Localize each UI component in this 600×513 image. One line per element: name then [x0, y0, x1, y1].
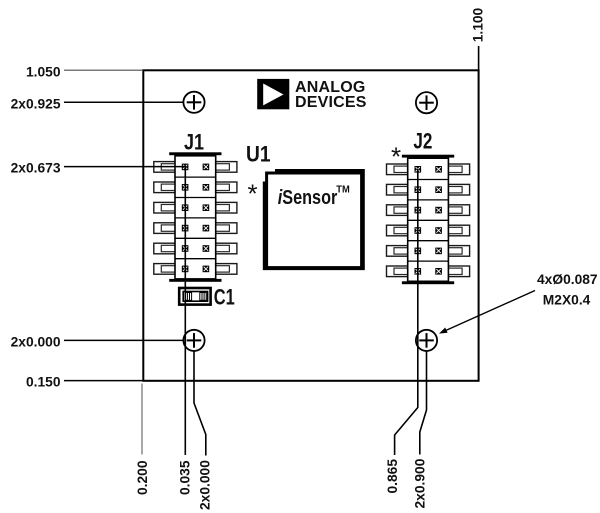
svg-text:2x0.000: 2x0.000	[198, 460, 213, 510]
svg-text:0.200: 0.200	[135, 460, 150, 495]
board outline	[143, 70, 478, 381]
J2 top end bar	[402, 155, 454, 158]
dimension 2x0.925 (leader + label)	[11, 96, 184, 111]
svg-text:C1: C1	[214, 285, 235, 310]
leader line 0.865 (J2 pin column)	[395, 169, 418, 455]
leader line 0.200 (board left edge)	[141, 384, 143, 455]
svg-text:0.035: 0.035	[178, 460, 193, 495]
J1 pin row 5 side tabs	[154, 243, 237, 254]
leader line 2x0.000 (bottom-left hole)	[194, 351, 206, 455]
J1 pin row 3 side tabs	[154, 202, 237, 213]
mounting hole top-left	[183, 92, 204, 113]
J1 top end bar	[169, 152, 221, 155]
J2 pin row 3 side tabs	[387, 205, 470, 216]
J2 pin row 2 side tabs	[387, 184, 470, 195]
svg-text:J1: J1	[184, 129, 204, 154]
svg-text:M2X0.4: M2X0.4	[543, 292, 591, 307]
svg-text:TM: TM	[336, 184, 350, 196]
mounting hole bottom-left	[183, 330, 204, 351]
note 4xO0.087 M2X0.4 with arrow	[439, 272, 598, 334]
J2 pin row 3 pads	[415, 207, 442, 214]
J1 pin row 1 side tabs	[154, 162, 237, 173]
svg-text:2x0.925: 2x0.925	[11, 96, 61, 111]
J2 body	[408, 158, 449, 281]
svg-text:1.100: 1.100	[471, 7, 486, 42]
J2 pin row 4 side tabs	[387, 225, 470, 236]
svg-text:0.865: 0.865	[385, 459, 400, 494]
J2 pin row 4 pads	[415, 227, 442, 234]
iSensor TM text	[278, 184, 350, 210]
sensor U1 outline (chamfered pin-1 corner)	[264, 171, 363, 269]
dimension 0.150 (leader + label)	[26, 374, 143, 389]
dimension 1.100 (right edge extension + rotated label)	[471, 7, 486, 70]
svg-text:4xØ0.087: 4xØ0.087	[537, 272, 598, 287]
svg-text:iSensor: iSensor	[278, 187, 338, 209]
J1 pin row 2 pads	[182, 184, 209, 191]
J1 body	[175, 156, 216, 279]
connector J2	[387, 155, 470, 284]
J1 pin row 5 pads	[182, 245, 209, 252]
J1 pin row 2 side tabs	[154, 182, 237, 193]
J1 pin row 4 pads	[182, 225, 209, 232]
leader line 2x0.900 (bottom-right hole)	[420, 351, 427, 454]
svg-text:2x0.900: 2x0.900	[413, 458, 428, 508]
mounting hole top-right	[416, 92, 437, 113]
J1 bottom end bar	[169, 279, 221, 282]
capacitor C1	[179, 288, 210, 305]
J2 pin row 1 pads	[415, 166, 442, 173]
svg-text:0.150: 0.150	[26, 374, 61, 389]
J1 pin row 3 pads	[182, 204, 209, 211]
J1 pin row 6 side tabs	[154, 264, 237, 275]
J2 bottom end bar	[402, 281, 454, 284]
J1 pin row 1 pads	[182, 164, 209, 171]
J2 pin row 6 pads	[415, 268, 442, 275]
leader line 2x0.673 (to J1 pin 1)	[64, 166, 186, 168]
J2 pin row 6 side tabs	[387, 266, 470, 277]
svg-text:2x0.000: 2x0.000	[11, 334, 61, 349]
J2 pin row 5 side tabs	[387, 246, 470, 257]
connector J1	[154, 152, 237, 281]
svg-text:U1: U1	[246, 142, 271, 167]
svg-text:2x0.673: 2x0.673	[11, 161, 61, 176]
J2 pin row 1 side tabs	[387, 164, 470, 175]
mounting hole bottom-right	[416, 330, 437, 351]
J2 pin row 2 pads	[415, 186, 442, 193]
J2 pin row 5 pads	[415, 248, 442, 255]
svg-text:J2: J2	[413, 129, 432, 154]
dimension 1.050 (leader + label)	[26, 64, 142, 79]
svg-text:*: *	[391, 142, 401, 172]
dimension 2x0.000 (leader + label)	[11, 334, 184, 349]
J1 pin row 4 side tabs	[154, 223, 237, 234]
svg-text:DEVICES: DEVICES	[295, 94, 367, 111]
svg-text:*: *	[248, 179, 258, 209]
Analog Devices logo	[257, 79, 367, 111]
J1 pin row 6 pads	[182, 266, 209, 273]
leader line 0.035 (J1 pin column)	[184, 167, 186, 455]
svg-text:1.050: 1.050	[26, 64, 61, 79]
